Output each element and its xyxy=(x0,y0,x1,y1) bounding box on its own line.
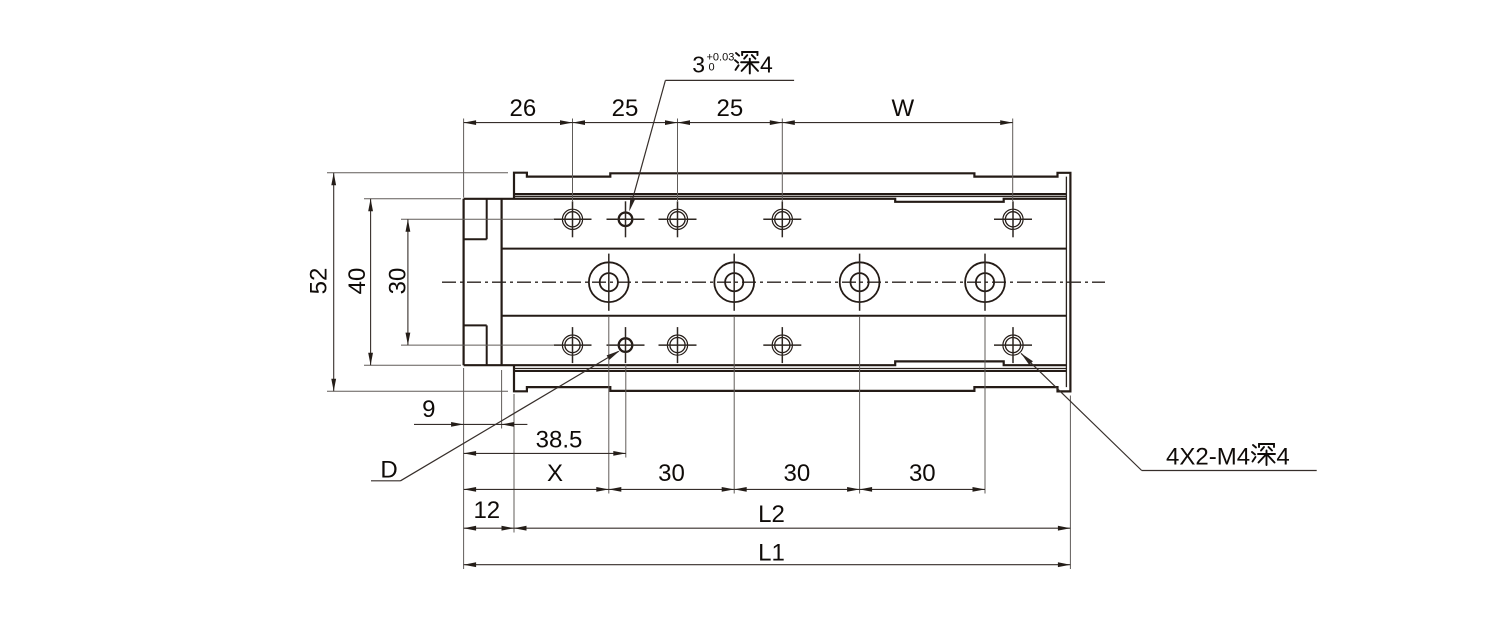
svg-text:0: 0 xyxy=(709,62,715,74)
svg-text:30: 30 xyxy=(385,268,412,295)
svg-text:X: X xyxy=(547,460,563,487)
svg-text:40: 40 xyxy=(344,268,371,295)
svg-text:30: 30 xyxy=(658,460,685,487)
svg-text:9: 9 xyxy=(422,396,435,423)
svg-text:4: 4 xyxy=(1276,444,1289,471)
svg-text:W: W xyxy=(891,95,914,122)
svg-text:4X2-M4: 4X2-M4 xyxy=(1166,444,1250,471)
svg-text:52: 52 xyxy=(306,268,333,295)
svg-text:3: 3 xyxy=(692,51,705,77)
svg-text:26: 26 xyxy=(510,95,537,122)
svg-text:L2: L2 xyxy=(758,501,785,528)
svg-text:12: 12 xyxy=(473,497,500,524)
svg-text:L1: L1 xyxy=(758,540,785,567)
svg-text:38.5: 38.5 xyxy=(536,427,583,454)
svg-text:D: D xyxy=(380,457,397,484)
svg-text:25: 25 xyxy=(717,95,744,122)
svg-text:4: 4 xyxy=(760,51,773,77)
svg-text:30: 30 xyxy=(909,460,936,487)
svg-text:30: 30 xyxy=(784,460,811,487)
svg-text:25: 25 xyxy=(612,95,639,122)
